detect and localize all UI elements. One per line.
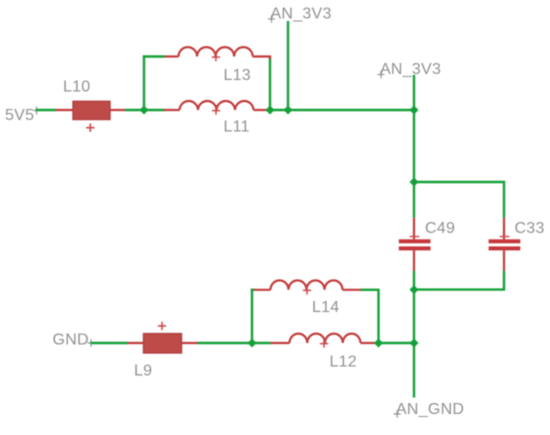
- junction bottom rail at main vertical: [410, 339, 419, 348]
- capacitor C33 plates: [489, 239, 521, 243]
- wire main vertical upper: [413, 110, 415, 218]
- node GND anchor cross: [87, 339, 94, 347]
- svg-text:5V5: 5V5: [5, 107, 34, 124]
- capacitor C49 bottom lead: [413, 250, 415, 270]
- L9 polarity plus: [158, 322, 166, 330]
- wire bottom rail left part: [198, 342, 271, 344]
- wire L14 branch right riser: [361, 290, 379, 343]
- svg-text:L12: L12: [330, 354, 357, 371]
- svg-text:AN_GND: AN_GND: [396, 401, 464, 418]
- inductor L12: [290, 334, 361, 343]
- L10 polarity plus: [86, 124, 94, 132]
- junction main corner: [410, 106, 419, 115]
- wire main vertical lower: [413, 271, 415, 398]
- junction at left riser: [140, 106, 149, 115]
- node AN_3V3 second anchor cross: [377, 71, 384, 79]
- wire GND to L9: [91, 342, 128, 344]
- wire left riser to L14 branch: [251, 289, 253, 343]
- wire left riser to L13 branch: [143, 55, 145, 110]
- svg-text:L14: L14: [312, 299, 339, 316]
- wire L14 branch left corner: [251, 289, 254, 291]
- wire L11 pin 1 lead: [164, 109, 180, 111]
- wire main horizontal net left part: [125, 109, 165, 111]
- svg-text:L13: L13: [224, 67, 251, 84]
- capacitor C33 top lead: [503, 218, 505, 240]
- wire L14 pin 1 lead: [254, 289, 271, 291]
- junction AN_3V3 stub 1: [284, 106, 293, 115]
- wire L13 pin 2 lead: [253, 55, 270, 57]
- wire L14 pin 2 lead: [343, 289, 361, 291]
- svg-text:L10: L10: [63, 79, 90, 96]
- L14 polarity plus: [303, 286, 311, 294]
- node 5V5 anchor cross: [33, 107, 40, 115]
- node AN_3V3 first anchor cross: [268, 15, 275, 22]
- wire bottom rail right part: [376, 342, 414, 344]
- inductor L14: [271, 280, 343, 289]
- L13 polarity plus: [212, 53, 220, 61]
- wire 5V5 to L10: [36, 109, 56, 111]
- wire L10 pin 1 lead: [56, 109, 75, 111]
- wire L12 pin 2 lead: [361, 342, 376, 344]
- wire L13 pin 2 corner stub: [269, 55, 271, 59]
- svg-text:L9: L9: [134, 362, 152, 379]
- node AN_GND anchor cross: [394, 410, 401, 418]
- resistor L10 (ferrite bead body): [73, 101, 110, 119]
- junction at right riser: [266, 106, 275, 115]
- inductor L13: [179, 47, 253, 56]
- wire right riser from L13 to main net: [269, 57, 271, 111]
- C49 polarity tick: [410, 236, 420, 238]
- wire L9 pin 1 lead: [128, 342, 145, 344]
- capacitor C49 top lead: [413, 218, 415, 240]
- wire L11 pin 2 lead: [254, 109, 267, 111]
- wire capacitor top rail: [414, 182, 504, 218]
- svg-text:AN_3V3: AN_3V3: [271, 6, 332, 23]
- junction left riser bottom: [248, 339, 257, 348]
- inductor L11: [180, 101, 254, 110]
- svg-text:C49: C49: [425, 220, 455, 237]
- C33 polarity tick: [500, 236, 510, 238]
- svg-text:GND: GND: [53, 332, 89, 349]
- L12 polarity plus: [320, 340, 328, 348]
- wire L10 pin 2 lead: [110, 109, 125, 111]
- wire AN_3V3 stub 2: [413, 75, 415, 110]
- svg-text:C33: C33: [515, 220, 545, 237]
- junction right riser bottom: [374, 339, 383, 348]
- wire main horizontal net right part: [267, 109, 415, 111]
- capacitor C33 bottom lead: [503, 250, 505, 270]
- wire L12 pin 1 lead: [271, 342, 290, 344]
- junction capacitor bottom: [410, 285, 419, 294]
- wire top branch to L13: [143, 55, 165, 57]
- wire L13 pin 1 lead: [165, 55, 179, 57]
- wire AN_3V3 stub 1: [287, 21, 289, 110]
- svg-text:AN_3V3: AN_3V3: [380, 61, 441, 78]
- svg-text:L11: L11: [224, 119, 250, 136]
- L11 polarity plus: [212, 107, 220, 115]
- capacitor C49 plates: [399, 239, 431, 243]
- junction capacitor top: [410, 178, 419, 187]
- wire capacitor bottom rail: [414, 271, 504, 290]
- wire L9 pin 2 lead: [182, 342, 198, 344]
- resistor L9 (ferrite bead body): [144, 334, 182, 353]
